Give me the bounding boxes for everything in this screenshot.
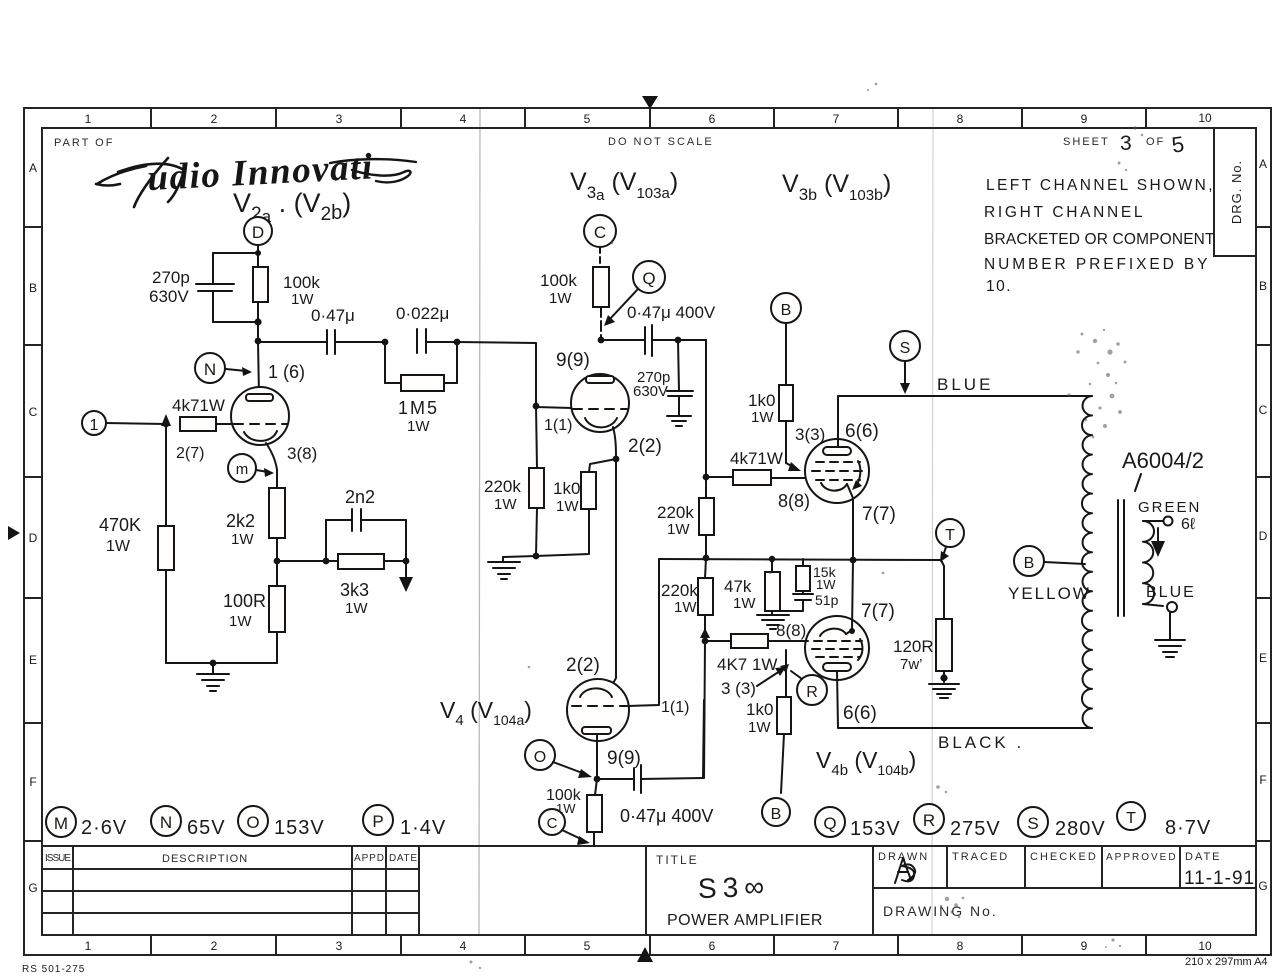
svg-text:DATE: DATE — [389, 853, 417, 864]
resistor 100R 1W — [269, 586, 285, 632]
V2a anode bar — [246, 394, 273, 401]
wire 270p branch left leg upper — [212, 253, 214, 284]
wire 270p shunt upper — [678, 340, 679, 391]
terminal T — [936, 519, 964, 547]
node 270p tap — [675, 337, 682, 344]
m pointer wire — [256, 470, 268, 472]
svg-text:4K7 1W: 4K7 1W — [717, 655, 777, 674]
wire rail to 120R — [941, 560, 944, 619]
resistor 3k3 1W — [338, 554, 384, 569]
wire C to 100k dashed — [599, 247, 601, 267]
resistor 4k7 1W V3b grid — [733, 470, 771, 485]
resistor 1k0 1W screen V3b — [779, 385, 793, 421]
svg-text:D: D — [1259, 529, 1268, 543]
svg-text:7w’: 7w’ — [900, 656, 923, 673]
svg-text:7(7): 7(7) — [861, 601, 895, 622]
wire 51p to ground join — [772, 600, 803, 611]
V3a grid dashed — [573, 408, 627, 410]
svg-text:280V: 280V — [1055, 818, 1106, 840]
valve V3b envelope — [805, 439, 869, 503]
V2a cathode arc — [244, 431, 277, 441]
wire 3k3 right stub — [384, 560, 406, 562]
svg-text:DRG. No.: DRG. No. — [1229, 160, 1244, 224]
left zone letters A-G — [28, 161, 37, 895]
svg-text:BLACK .: BLACK . — [938, 733, 1024, 752]
terminal P legend — [363, 805, 393, 835]
svg-text:F: F — [29, 775, 36, 789]
svg-text:47k: 47k — [724, 577, 752, 596]
capacitor 0.47u 400V plates — [644, 327, 646, 354]
V3b grids dashed three rows — [816, 461, 860, 463]
V4b anode lead to black line — [837, 671, 1092, 728]
right zone strip dividers — [1256, 227, 1271, 841]
terminal B upper — [771, 293, 801, 323]
wire 1k0 to B lower — [781, 734, 784, 793]
svg-text:CHECKED: CHECKED — [1030, 851, 1098, 863]
terminal N legend — [151, 806, 181, 836]
node mid rail dropper — [703, 555, 710, 562]
wire secondary to ground — [1169, 612, 1171, 640]
svg-text:POWER AMPLIFIER: POWER AMPLIFIER — [667, 912, 823, 929]
capacitor 51p plates — [802, 591, 804, 594]
svg-text:APPD: APPD — [354, 853, 384, 864]
terminal S upper — [890, 331, 920, 361]
wire 2k2 to node — [276, 538, 278, 586]
wire 3k3 left stub — [326, 560, 338, 562]
svg-text:E: E — [1259, 651, 1267, 665]
node ground rail — [210, 660, 217, 667]
svg-text:275V: 275V — [950, 818, 1001, 840]
svg-text:N: N — [204, 360, 216, 379]
terminal B legend — [762, 798, 790, 826]
svg-text:OF: OF — [1146, 136, 1165, 148]
node ground rail V3a — [533, 553, 540, 560]
2n2 branch right leg — [405, 520, 407, 561]
top zone strip dividers — [151, 108, 1146, 128]
ground symbol 270p — [667, 416, 691, 426]
svg-text:DATE: DATE — [1185, 851, 1222, 863]
wire dropper column bottom — [704, 641, 705, 778]
resistor 4k7 1W V4b grid — [731, 634, 768, 648]
svg-text:470K: 470K — [99, 515, 141, 535]
svg-text:7: 7 — [833, 939, 840, 953]
svg-text:6(6): 6(6) — [845, 421, 879, 442]
issue/description table — [42, 846, 419, 935]
node 4k7 V3b tap — [703, 474, 710, 481]
wire B to 1k0 screen feed — [785, 323, 787, 385]
svg-text:9: 9 — [1081, 939, 1088, 953]
svg-text:B: B — [29, 281, 37, 295]
svg-text:1·4V: 1·4V — [400, 817, 446, 839]
valve V3a envelope — [571, 374, 629, 432]
node 3k3 right with feedback arrow — [403, 558, 410, 565]
svg-text:2(7): 2(7) — [176, 445, 204, 462]
svg-text:C: C — [1259, 403, 1268, 417]
title box — [872, 846, 874, 935]
secondary top lead with terminal — [1143, 520, 1163, 522]
svg-text:630V: 630V — [633, 383, 668, 400]
svg-text:G: G — [1258, 879, 1267, 893]
svg-text:B: B — [781, 302, 792, 319]
svg-text:BLUE: BLUE — [937, 375, 993, 394]
wire D to 100k anode resistor — [257, 245, 259, 268]
T pointer wire — [943, 547, 946, 556]
wire 270p to ground — [678, 396, 680, 416]
drawing frame inner border — [42, 128, 1256, 935]
svg-text:1(1): 1(1) — [661, 699, 689, 716]
svg-text:F: F — [1259, 773, 1266, 787]
terminal D — [244, 217, 272, 245]
svg-text:2n2: 2n2 — [345, 487, 375, 507]
terminal T legend — [1117, 802, 1145, 830]
svg-text:1W: 1W — [345, 600, 368, 617]
ground symbol 120R — [929, 684, 959, 698]
svg-text:S3∞: S3∞ — [697, 871, 770, 905]
svg-text:6: 6 — [709, 939, 716, 953]
1M5 shunt right leg — [456, 342, 458, 383]
svg-text:1k0: 1k0 — [553, 479, 580, 498]
resistor 2k2 1W — [269, 488, 285, 538]
Q pointer wire — [609, 289, 638, 320]
resistor 220k 1W upper dropper — [705, 477, 707, 498]
R pointer wire — [791, 671, 802, 679]
resistor 4k7 1W grid stopper — [180, 417, 216, 431]
issue table headers — [45, 853, 417, 865]
resistor 220k 1W lower dropper — [705, 558, 706, 578]
transformer primary winding — [1082, 396, 1092, 728]
svg-text:TRACED: TRACED — [952, 851, 1009, 863]
transformer secondary winding — [1143, 521, 1154, 604]
2n2 branch left leg — [325, 520, 327, 561]
svg-text:1k0: 1k0 — [748, 391, 775, 410]
empty revision box divider — [645, 846, 647, 935]
terminal Q upper — [633, 261, 665, 293]
O pointer wire — [553, 762, 585, 774]
left edge fold arrow — [8, 526, 20, 540]
V4b cathode lead up — [846, 560, 853, 634]
svg-text:6(6): 6(6) — [843, 703, 877, 724]
svg-text:0·47μ 400V: 0·47μ 400V — [620, 806, 713, 826]
svg-text:10.: 10. — [986, 278, 1012, 295]
svg-text:A: A — [1259, 157, 1267, 171]
svg-text:10: 10 — [1198, 939, 1212, 953]
svg-text:1: 1 — [85, 112, 92, 126]
ground symbol V2a stage — [197, 663, 229, 691]
svg-text:1W: 1W — [733, 595, 756, 612]
wire input to grid node — [106, 423, 166, 424]
node V3b cathode rail — [850, 557, 857, 564]
capacitor 270p 630V plates — [196, 283, 234, 285]
wire 4k7 to V4b grid — [705, 640, 731, 642]
svg-text:8: 8 — [957, 112, 964, 126]
svg-text:m: m — [236, 461, 249, 478]
terminal 1 input — [82, 411, 106, 435]
svg-text:120R: 120R — [893, 637, 934, 656]
wire 4k7 to V3b grid — [706, 476, 733, 478]
centre alignment triangle bottom — [637, 947, 653, 962]
svg-text:5: 5 — [584, 939, 591, 953]
svg-text:7: 7 — [833, 112, 840, 126]
wire 4k7 to grid — [216, 423, 233, 425]
resistor 1k0 1W screen V4b — [777, 697, 791, 734]
svg-text:1W: 1W — [674, 599, 697, 616]
wire cathode jog to 1k0 — [589, 459, 616, 472]
svg-text:1W: 1W — [816, 577, 836, 592]
svg-text:T: T — [1126, 810, 1136, 827]
svg-text:100k: 100k — [540, 271, 577, 290]
svg-text:7(7): 7(7) — [862, 504, 896, 525]
V2a cathode lead — [266, 443, 277, 470]
V3b cathode arc — [821, 483, 847, 491]
svg-text:1W: 1W — [494, 496, 517, 513]
svg-text:0·022μ: 0·022μ — [396, 304, 449, 323]
terminal C upper — [584, 215, 616, 247]
left zone strip dividers — [24, 227, 42, 841]
2n2 branch top right — [361, 519, 406, 521]
V3a cathode lead — [613, 427, 616, 459]
wire V3b anode to blue line — [838, 396, 1092, 447]
wire 120R to ground — [943, 671, 945, 682]
svg-text:NUMBER PREFIXED BY: NUMBER PREFIXED BY — [984, 256, 1209, 273]
svg-text:G: G — [28, 881, 37, 895]
svg-text:APPROVED: APPROVED — [1106, 852, 1178, 863]
wire 220k to V4b tap with arrow — [704, 615, 706, 640]
terminal m — [228, 454, 256, 482]
node input junction with up arrow — [163, 421, 170, 428]
terminal S legend — [1018, 807, 1048, 837]
terminal Q legend — [815, 807, 845, 837]
riser from output cap — [703, 700, 704, 778]
svg-text:TITLE: TITLE — [656, 853, 699, 867]
node V3a grid — [533, 403, 540, 410]
capacitor 270p 630V shunt plates — [667, 390, 693, 392]
N pointer wire — [226, 369, 246, 371]
capacitor 2n2 plates — [351, 509, 353, 531]
wire node to 3k3 branch — [277, 560, 326, 562]
wire cap to node — [335, 341, 385, 343]
svg-text:S: S — [1027, 814, 1038, 833]
svg-text:1M5: 1M5 — [398, 398, 439, 418]
terminal C lower — [539, 809, 565, 835]
svg-text:3 (3): 3 (3) — [721, 679, 756, 698]
svg-text:220k: 220k — [484, 477, 521, 496]
svg-text:P: P — [372, 812, 383, 831]
svg-text:8·7V: 8·7V — [1165, 817, 1211, 839]
terminal O legend — [238, 806, 268, 836]
svg-text:2: 2 — [211, 112, 218, 126]
terminal O mid — [525, 740, 555, 770]
svg-text:M: M — [54, 814, 68, 833]
1M5 shunt left leg — [384, 342, 386, 383]
primary tap wire from B — [1014, 546, 1044, 576]
wire node to dropper column — [678, 339, 706, 341]
svg-text:E: E — [29, 653, 37, 667]
resistor 15k 1W — [802, 559, 804, 566]
svg-text:6ℓ: 6ℓ — [1181, 516, 1195, 533]
svg-text:PART OF: PART OF — [54, 137, 114, 149]
wire V3a grid drop — [535, 343, 537, 406]
wire 270p branch bottom — [213, 321, 258, 323]
wire to V3a grid drop — [457, 342, 536, 343]
wire grid into valve — [536, 407, 572, 408]
wire V3a cathode long drop to V4 — [611, 459, 616, 687]
V3a cathode arc — [585, 418, 617, 427]
svg-text:DO NOT SCALE: DO NOT SCALE — [608, 136, 714, 148]
svg-text:LEFT CHANNEL SHOWN,: LEFT CHANNEL SHOWN, — [986, 177, 1214, 194]
svg-text:210 x 297mm A4: 210 x 297mm A4 — [1185, 956, 1268, 968]
wire 270p branch left leg lower — [212, 291, 214, 322]
svg-text:51p: 51p — [815, 592, 839, 608]
V4b suppressor tie — [858, 639, 862, 660]
svg-text:T: T — [945, 527, 955, 544]
svg-text:3: 3 — [1120, 132, 1132, 155]
svg-text:O: O — [534, 749, 546, 766]
svg-text:1W: 1W — [556, 498, 579, 515]
mid rail wire — [659, 559, 941, 560]
svg-text:4: 4 — [460, 112, 467, 126]
bottom zone numbers 1-10 — [85, 939, 1212, 953]
svg-text:Q: Q — [823, 814, 836, 833]
V4 cathode arc inverted — [580, 688, 612, 697]
svg-text:1W: 1W — [667, 521, 690, 538]
V4b grids dashed three rows — [814, 640, 862, 642]
title block top line — [42, 845, 1256, 847]
svg-text:3(3): 3(3) — [795, 425, 825, 444]
svg-text:4: 4 — [460, 939, 467, 953]
wire cap to riser — [641, 778, 703, 779]
svg-text:3: 3 — [336, 112, 343, 126]
svg-text:2(2): 2(2) — [566, 655, 600, 676]
wire anode to coupling cap — [601, 339, 644, 341]
svg-text:4k71W: 4k71W — [730, 449, 783, 468]
scan speckle noise — [470, 83, 1144, 970]
node V2a anode — [255, 338, 262, 345]
svg-text:1(1): 1(1) — [544, 417, 572, 434]
svg-text:1W: 1W — [229, 613, 252, 630]
resistor 100k 1W anode V2a — [253, 267, 268, 302]
svg-text:10: 10 — [1198, 111, 1212, 125]
resistor 100k 1W V4 load — [595, 779, 597, 795]
svg-text:100k: 100k — [283, 273, 320, 292]
secondary bottom lead with terminal — [1143, 604, 1163, 606]
svg-text:B: B — [771, 806, 782, 823]
S pointer wire — [904, 361, 906, 387]
capacitor 0.47u coupling plates — [326, 330, 328, 354]
V4b cathode arc inverted — [820, 629, 846, 636]
node before 0.022u — [382, 339, 389, 346]
node after 0.022u — [454, 339, 461, 346]
svg-text:SHEET: SHEET — [1063, 136, 1110, 148]
svg-text:DESCRIPTION: DESCRIPTION — [162, 853, 248, 865]
svg-text:R: R — [806, 684, 818, 701]
svg-text:RIGHT CHANNEL: RIGHT CHANNEL — [984, 204, 1144, 221]
wire anode signal line — [258, 341, 326, 343]
svg-text:1k0: 1k0 — [746, 700, 773, 719]
capacitor 0.022u plates — [416, 329, 418, 353]
DRG. No. box — [1214, 128, 1256, 256]
svg-text:1: 1 — [85, 939, 92, 953]
C pointer wire — [562, 830, 583, 840]
resistor 1k0 1W cathode V3a — [581, 472, 596, 509]
svg-text:9: 9 — [1081, 112, 1088, 126]
wire cap to node — [652, 339, 678, 341]
right zone letters A-G — [1258, 157, 1267, 893]
V4 grid lead out right — [627, 559, 659, 706]
node V4 anode output — [594, 776, 601, 783]
transformer core — [1117, 500, 1119, 616]
resistor 47k 1W — [771, 559, 773, 572]
svg-text:BLUE: BLUE — [1146, 584, 1196, 601]
svg-text:O: O — [246, 813, 259, 832]
centre alignment triangle top — [642, 96, 658, 109]
Audio Innovations signature flourish — [96, 158, 184, 207]
svg-text:A6004/2: A6004/2 — [1122, 448, 1204, 473]
right channel note handwritten — [984, 177, 1216, 295]
svg-text:1 (6): 1 (6) — [268, 362, 305, 382]
wire 470K top — [165, 424, 167, 526]
V3b anode bar — [823, 447, 851, 455]
V2a grid dashed — [234, 423, 287, 425]
V4b anode bar — [823, 663, 851, 671]
svg-text:2(2): 2(2) — [628, 436, 662, 457]
svg-text:3: 3 — [336, 939, 343, 953]
ground symbol V3a stage — [488, 557, 520, 579]
resistor 1M5 1W — [401, 375, 444, 391]
svg-text:4k71W: 4k71W — [172, 396, 225, 415]
node cathode divider — [274, 558, 281, 565]
terminal M legend — [46, 807, 76, 837]
svg-text:1W: 1W — [748, 719, 771, 736]
svg-text:B: B — [1024, 555, 1035, 572]
svg-text:D: D — [29, 531, 38, 545]
2n2 branch top left — [326, 519, 352, 521]
wire 100R to ground rail — [276, 632, 278, 663]
V3b cathode lead — [847, 484, 853, 558]
svg-text:BRACKETED OR COMPONENT: BRACKETED OR COMPONENT — [984, 231, 1216, 248]
svg-text:R: R — [923, 811, 935, 830]
paper fold crease line left — [479, 108, 480, 935]
svg-text:153V: 153V — [850, 818, 901, 840]
svg-text:ISSUE: ISSUE — [45, 853, 71, 864]
svg-text:0·47μ: 0·47μ — [311, 306, 355, 325]
svg-text:YELLOW: YELLOW — [1008, 584, 1091, 603]
svg-text:0·47μ 400V: 0·47μ 400V — [627, 303, 716, 322]
svg-text:1W: 1W — [407, 418, 430, 435]
svg-text:C: C — [29, 405, 38, 419]
svg-text:6: 6 — [709, 112, 716, 126]
wire dropper column top — [705, 340, 707, 477]
svg-text:8(8): 8(8) — [778, 491, 810, 511]
svg-text:2k2: 2k2 — [226, 511, 255, 531]
ground rail wire — [166, 662, 277, 664]
svg-text:1: 1 — [90, 417, 99, 434]
svg-text:1W: 1W — [231, 531, 254, 548]
capacitor 0.47u 400V output plates — [633, 768, 635, 790]
wire ground rail to ground — [503, 556, 536, 557]
terminal N — [195, 353, 225, 383]
svg-text:11-1-91: 11-1-91 — [1184, 868, 1255, 889]
svg-text:3(8): 3(8) — [287, 444, 317, 463]
svg-text:N: N — [160, 813, 172, 832]
svg-text:153V: 153V — [274, 817, 325, 839]
svg-text:3k3: 3k3 — [340, 580, 369, 600]
svg-text:GREEN: GREEN — [1138, 499, 1201, 516]
ground symbol secondary — [1155, 640, 1185, 657]
node 4k7 V4b tap — [702, 638, 709, 645]
drawn initials AB squiggle — [895, 858, 915, 883]
V3b suppressor tie — [855, 461, 860, 487]
V4 grid dashed — [572, 705, 626, 707]
